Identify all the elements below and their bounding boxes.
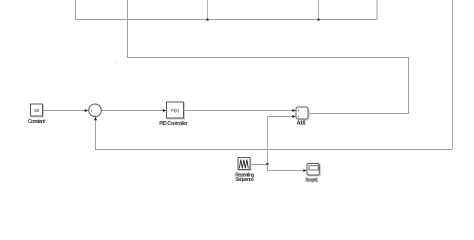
svg-text:PI(z): PI(z) [171,108,180,113]
arrowhead into PID left [163,109,166,112]
svg-text:+: + [297,114,300,119]
block PID Controller [159,102,188,127]
wire feedback vertical from top at x=452 [452,0,454,149]
wire Constant to Sum [43,110,85,112]
svg-text:−: − [94,113,97,118]
svg-text:Sequence: Sequence [235,177,254,183]
wire junction up to Add1 input 2 level [267,117,269,165]
node junction at repeating sequence output [266,163,268,165]
svg-text:+: + [297,108,300,113]
wire PID to Add1 input 1 [184,110,293,112]
wire Add1 output to off-screen plant (right, up, left, up) [128,0,409,114]
block Scope1 [305,164,320,184]
wire Sum to PID [102,110,164,112]
svg-text:50: 50 [34,108,40,113]
svg-text:Scope1: Scope1 [305,178,318,184]
arrowhead into Add1 input1 [292,109,295,112]
svg-text:ti: ti [115,59,117,64]
wire top net horizontal y=19 [75,19,377,21]
svg-text:Add1: Add1 [296,121,306,127]
arrowhead into Sum bottom [94,117,97,120]
constant block Constant [28,104,45,125]
block Add1 (sum rectangular) [296,107,309,127]
arrowhead into Sum left [85,109,88,112]
wire junction down and right to Scope1 [268,165,304,171]
wire top net stub x=318 [318,0,320,20]
svg-text:PID Controller: PID Controller [159,121,188,127]
wire Repeating Sequence output to junction [251,164,268,166]
wire top net stub x=377 [376,0,378,20]
block Repeating Sequence [235,158,254,184]
wire horizontal into Add1 input 2 [268,116,293,118]
arrowhead into Add1 input2 [292,115,295,118]
wire top net stub x=75 [75,0,77,20]
node junction on top net at x=207 [207,19,209,21]
wire top net stub x=207 [207,0,209,20]
sum block (round) [89,104,102,118]
svg-text:Constant: Constant [28,119,45,125]
wire feedback bottom run and rise to Sum [96,120,453,150]
svg-text:+: + [90,109,93,114]
node junction on top net at x=318 [318,19,320,21]
arrowhead into Scope1 [303,169,306,172]
